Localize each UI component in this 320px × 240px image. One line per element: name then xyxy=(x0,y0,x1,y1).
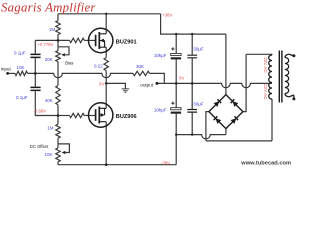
svg-text:30µF: 30µF xyxy=(193,101,204,106)
svg-text:-0.68V: -0.68V xyxy=(34,109,47,114)
svg-text:40K: 40K xyxy=(45,98,53,103)
svg-text:10K: 10K xyxy=(45,152,53,157)
svg-text:DC Offset: DC Offset xyxy=(30,144,49,149)
svg-text:Sagaris Amplifier: Sagaris Amplifier xyxy=(1,1,96,15)
svg-text:+0.779V: +0.779V xyxy=(37,42,53,47)
svg-text:+38V: +38V xyxy=(162,12,172,17)
svg-text:Bias: Bias xyxy=(65,61,73,66)
svg-text:1M: 1M xyxy=(49,27,56,32)
svg-text:30K: 30K xyxy=(136,64,144,69)
svg-text:1M: 1M xyxy=(47,125,54,130)
svg-text:10K: 10K xyxy=(17,65,25,70)
svg-text:output: output xyxy=(140,82,153,87)
svg-text:BUZ906: BUZ906 xyxy=(116,114,137,120)
svg-text:0.1µF: 0.1µF xyxy=(14,51,26,56)
svg-text:20K: 20K xyxy=(45,57,53,62)
svg-text:0V: 0V xyxy=(179,75,184,80)
svg-text:22V AC: 22V AC xyxy=(263,84,268,100)
svg-text:0.22: 0.22 xyxy=(94,64,103,69)
svg-text:10kµF: 10kµF xyxy=(154,108,167,113)
svg-text:30µF: 30µF xyxy=(193,46,204,51)
svg-text:0.1µF: 0.1µF xyxy=(16,95,28,100)
svg-text:0V: 0V xyxy=(99,82,104,87)
svg-text:10kµF: 10kµF xyxy=(154,53,167,58)
svg-text:-38V: -38V xyxy=(161,160,170,165)
svg-text:BUZ901: BUZ901 xyxy=(116,39,137,45)
svg-text:input: input xyxy=(1,67,12,72)
svg-text:www.tubecad.com: www.tubecad.com xyxy=(240,161,291,167)
svg-text:22V AC: 22V AC xyxy=(263,57,268,73)
